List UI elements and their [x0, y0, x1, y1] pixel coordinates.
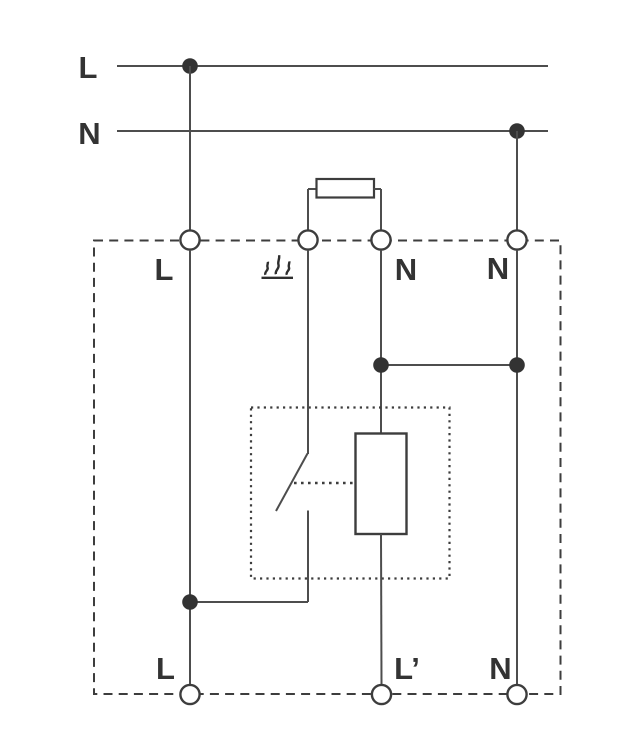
- junction dot on N line: [509, 123, 525, 139]
- svg-text:N: N: [487, 251, 509, 286]
- heating element symbol: [262, 255, 294, 278]
- junction dot (left, on N column): [373, 357, 389, 373]
- terminal N (right): [507, 230, 526, 249]
- wire: middle N terminal down to relay coil: [380, 250, 382, 434]
- junction dot on L line: [182, 58, 198, 74]
- switch contact K1 (relay contact, open): [276, 250, 308, 602]
- terminal heater output: [298, 230, 317, 249]
- supply line L (wire): [117, 65, 548, 67]
- relay assembly boundary (inner dotted box): [251, 408, 450, 579]
- wire: cross link between N columns: [381, 364, 517, 366]
- wire: relay coil down to bottom terminal L': [380, 534, 383, 684]
- terminal N (middle): [371, 230, 390, 249]
- bottom terminal L: [180, 685, 199, 704]
- mechanical linkage (dotted) switch to coil: [294, 482, 355, 484]
- bottom terminal N: [507, 685, 526, 704]
- relay coil K1: [356, 434, 407, 535]
- svg-text:L’: L’: [394, 651, 420, 686]
- svg-text:L: L: [155, 252, 174, 287]
- svg-text:N: N: [489, 651, 511, 686]
- junction dot (right, on N column): [509, 357, 525, 373]
- svg-text:L: L: [156, 651, 175, 686]
- device enclosure (outer dashed box): [94, 241, 561, 695]
- resistor (heating load) between heater terminal and N terminal: [308, 179, 381, 230]
- svg-text:N: N: [395, 252, 417, 287]
- junction dot on L column: [182, 594, 198, 610]
- wire: right N terminal down to bottom terminal N: [516, 250, 518, 684]
- svg-text:L: L: [79, 50, 98, 85]
- wire: N line down to terminal N (right): [516, 131, 518, 230]
- supply line N (wire): [117, 130, 548, 132]
- wire: L line down to terminal L: [189, 66, 191, 230]
- wire: terminal L down to bottom terminal L: [189, 250, 191, 684]
- bottom terminal L': [372, 685, 391, 704]
- terminal L (top row): [180, 230, 199, 249]
- wire: switch to L column (horizontal): [190, 601, 308, 603]
- svg-text:N: N: [78, 116, 100, 151]
